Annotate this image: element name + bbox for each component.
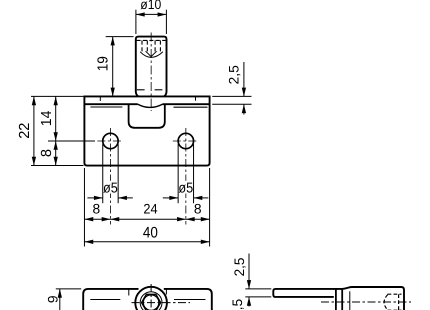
ø5 R arrow left: [169, 196, 178, 200]
dimension 2,5 bottom right: [245, 254, 271, 307]
8-24-8 arrow left of 186: [186, 217, 195, 221]
top view bend tick right: [165, 289, 167, 294]
ø5 L arrow left: [94, 196, 103, 200]
9 arrow up: [58, 289, 62, 298]
side view bend line 2: [341, 289, 343, 310]
hole left centerlines: [97, 140, 123, 142]
19 arrow top: [111, 37, 115, 46]
40 arrow right: [201, 240, 210, 244]
8-24-8 arrow left of 110: [110, 217, 119, 221]
8-24-8 arrow at 209: [201, 217, 210, 221]
ø5 right mask: [180, 181, 193, 194]
dimension 9: [56, 289, 81, 310]
stud (front view) outline: [136, 37, 167, 97]
top view bend tick left: [128, 289, 130, 295]
side view flange bar: [273, 289, 343, 297]
dimension ø10: [136, 10, 167, 34]
stud tapped hole dashed lines: [142, 40, 160, 51]
top view hex socket: [142, 294, 161, 310]
ø5 L arrow right: [118, 196, 127, 200]
plate (front view) outline: [84, 96, 209, 165]
flange edge line with stud base arc: [84, 103, 209, 105]
hole left: [103, 133, 118, 148]
svg-text:8: 8: [194, 201, 202, 216]
8-24-8 arrow right of 186: [177, 217, 186, 221]
dimension 22: [31, 96, 84, 165]
dimension 19: [106, 37, 134, 97]
40 arrow left: [84, 240, 93, 244]
svg-text:8: 8: [39, 149, 55, 157]
svg-text:8: 8: [93, 201, 101, 216]
8 arrow bottom: [54, 157, 58, 166]
side view bend line 1: [335, 289, 337, 310]
side view tapped hole hidden lines: [384, 294, 401, 310]
side view centerline: [321, 301, 411, 303]
2,5 BR arrow down: [247, 280, 251, 289]
14 arrow top: [54, 96, 58, 105]
dimension ø5 left arrows: [87, 144, 132, 203]
ø10 arrow right: [158, 12, 167, 16]
top view socket drill circle: [143, 295, 159, 310]
dimension 2,5 top right: [212, 62, 251, 115]
8-24-8 arrow at 84: [84, 217, 93, 221]
8 arrow top: [54, 141, 58, 150]
dimension row 40: [84, 241, 209, 243]
ø10 arrow left: [136, 12, 145, 16]
top view far edge line right: [174, 299, 206, 301]
top view centerlines: [132, 302, 191, 304]
2,5 BR arrow up: [247, 297, 251, 306]
svg-text:9: 9: [46, 295, 61, 303]
hole right centerlines: [173, 140, 199, 142]
19 arrow bottom: [111, 88, 115, 97]
extension lines below plate: [84, 168, 209, 247]
hole right: [178, 133, 193, 148]
22 arrow bottom: [32, 157, 36, 166]
svg-text:ø10: ø10: [140, 0, 161, 12]
side view stud outline: [342, 287, 404, 310]
ø5 left mask: [104, 181, 117, 194]
svg-text:2,5: 2,5: [227, 65, 242, 85]
top view far edge line left: [90, 299, 120, 301]
bend tick left (front): [99, 96, 101, 101]
bend tick right (front): [195, 96, 197, 100]
svg-text:40: 40: [143, 224, 158, 241]
2,5 TR arrow up: [242, 104, 246, 113]
stud centerline: [150, 33, 152, 112]
top view bar outline: [83, 289, 212, 310]
stud base fillet arc: [138, 104, 163, 107]
14 arrow bottom: [54, 132, 58, 141]
dimension row 8 24 8: [84, 218, 209, 220]
2,5 TR arrow down: [242, 88, 246, 97]
8-24-8 arrow right of 110: [102, 217, 111, 221]
stud drill point V: [146, 51, 157, 56]
svg-text:19: 19: [96, 56, 112, 71]
top view stud circle: [135, 287, 167, 310]
svg-text:ø5: ø5: [178, 180, 193, 196]
svg-text:ø5: ø5: [103, 180, 118, 196]
22 arrow top: [32, 96, 36, 105]
ø5 R arrow right: [194, 196, 203, 200]
arrowheads: [32, 12, 251, 305]
flange far edge line right: [174, 106, 208, 108]
dimension ø5 right arrows: [163, 144, 209, 203]
top view chamfer circle: [140, 292, 162, 310]
dimension 14 and 8 left: [48, 96, 95, 165]
side view stud shoulder line: [349, 291, 351, 310]
stud thread chamfer dashed line top: [137, 39, 166, 41]
notch below stud: [129, 104, 165, 128]
svg-text:24: 24: [143, 201, 157, 216]
svg-text:14: 14: [39, 111, 55, 127]
svg-text:5,5: 5,5: [230, 299, 245, 310]
stud thread end arc: [140, 52, 163, 58]
svg-text:22: 22: [17, 123, 33, 139]
svg-text:2,5: 2,5: [232, 257, 247, 276]
flange far edge line left: [90, 106, 122, 108]
stud base thread runout dashes: [137, 89, 145, 91]
